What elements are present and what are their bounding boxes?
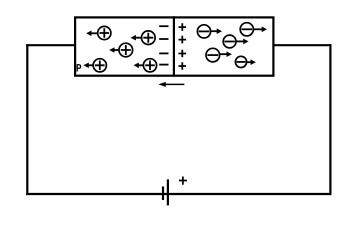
charge minus 1 <box>159 25 168 27</box>
battery positive plate <box>167 179 169 205</box>
electron E2 <box>240 23 267 36</box>
wire left-horizontal <box>26 44 75 46</box>
current direction arrow <box>158 82 184 87</box>
electron E5 <box>235 56 256 67</box>
charge plus 3 <box>179 50 187 58</box>
charge minus 4 <box>159 64 168 66</box>
label P <box>77 65 80 72</box>
wire right-vertical <box>329 44 331 195</box>
charge plus 2 <box>179 36 187 44</box>
diode body box <box>75 17 273 75</box>
charge minus 2 <box>159 38 168 40</box>
charge minus 3 <box>159 52 168 54</box>
hole H4 <box>84 59 107 72</box>
hole H1 <box>86 26 111 39</box>
charge plus 4 <box>179 62 187 70</box>
electron E1 <box>197 25 222 38</box>
wire right-horizontal <box>274 44 332 46</box>
hole H3 <box>109 43 132 57</box>
hole H5 <box>134 59 157 72</box>
wire left-vertical <box>26 44 28 195</box>
hole H2 <box>131 31 156 45</box>
electron E3 <box>223 35 248 48</box>
charge plus 1 <box>179 23 187 31</box>
battery plus label <box>179 177 187 185</box>
electron E4 <box>206 48 232 62</box>
battery negative plate <box>162 187 164 201</box>
wire bottom <box>26 193 331 195</box>
junction line <box>173 16 175 76</box>
